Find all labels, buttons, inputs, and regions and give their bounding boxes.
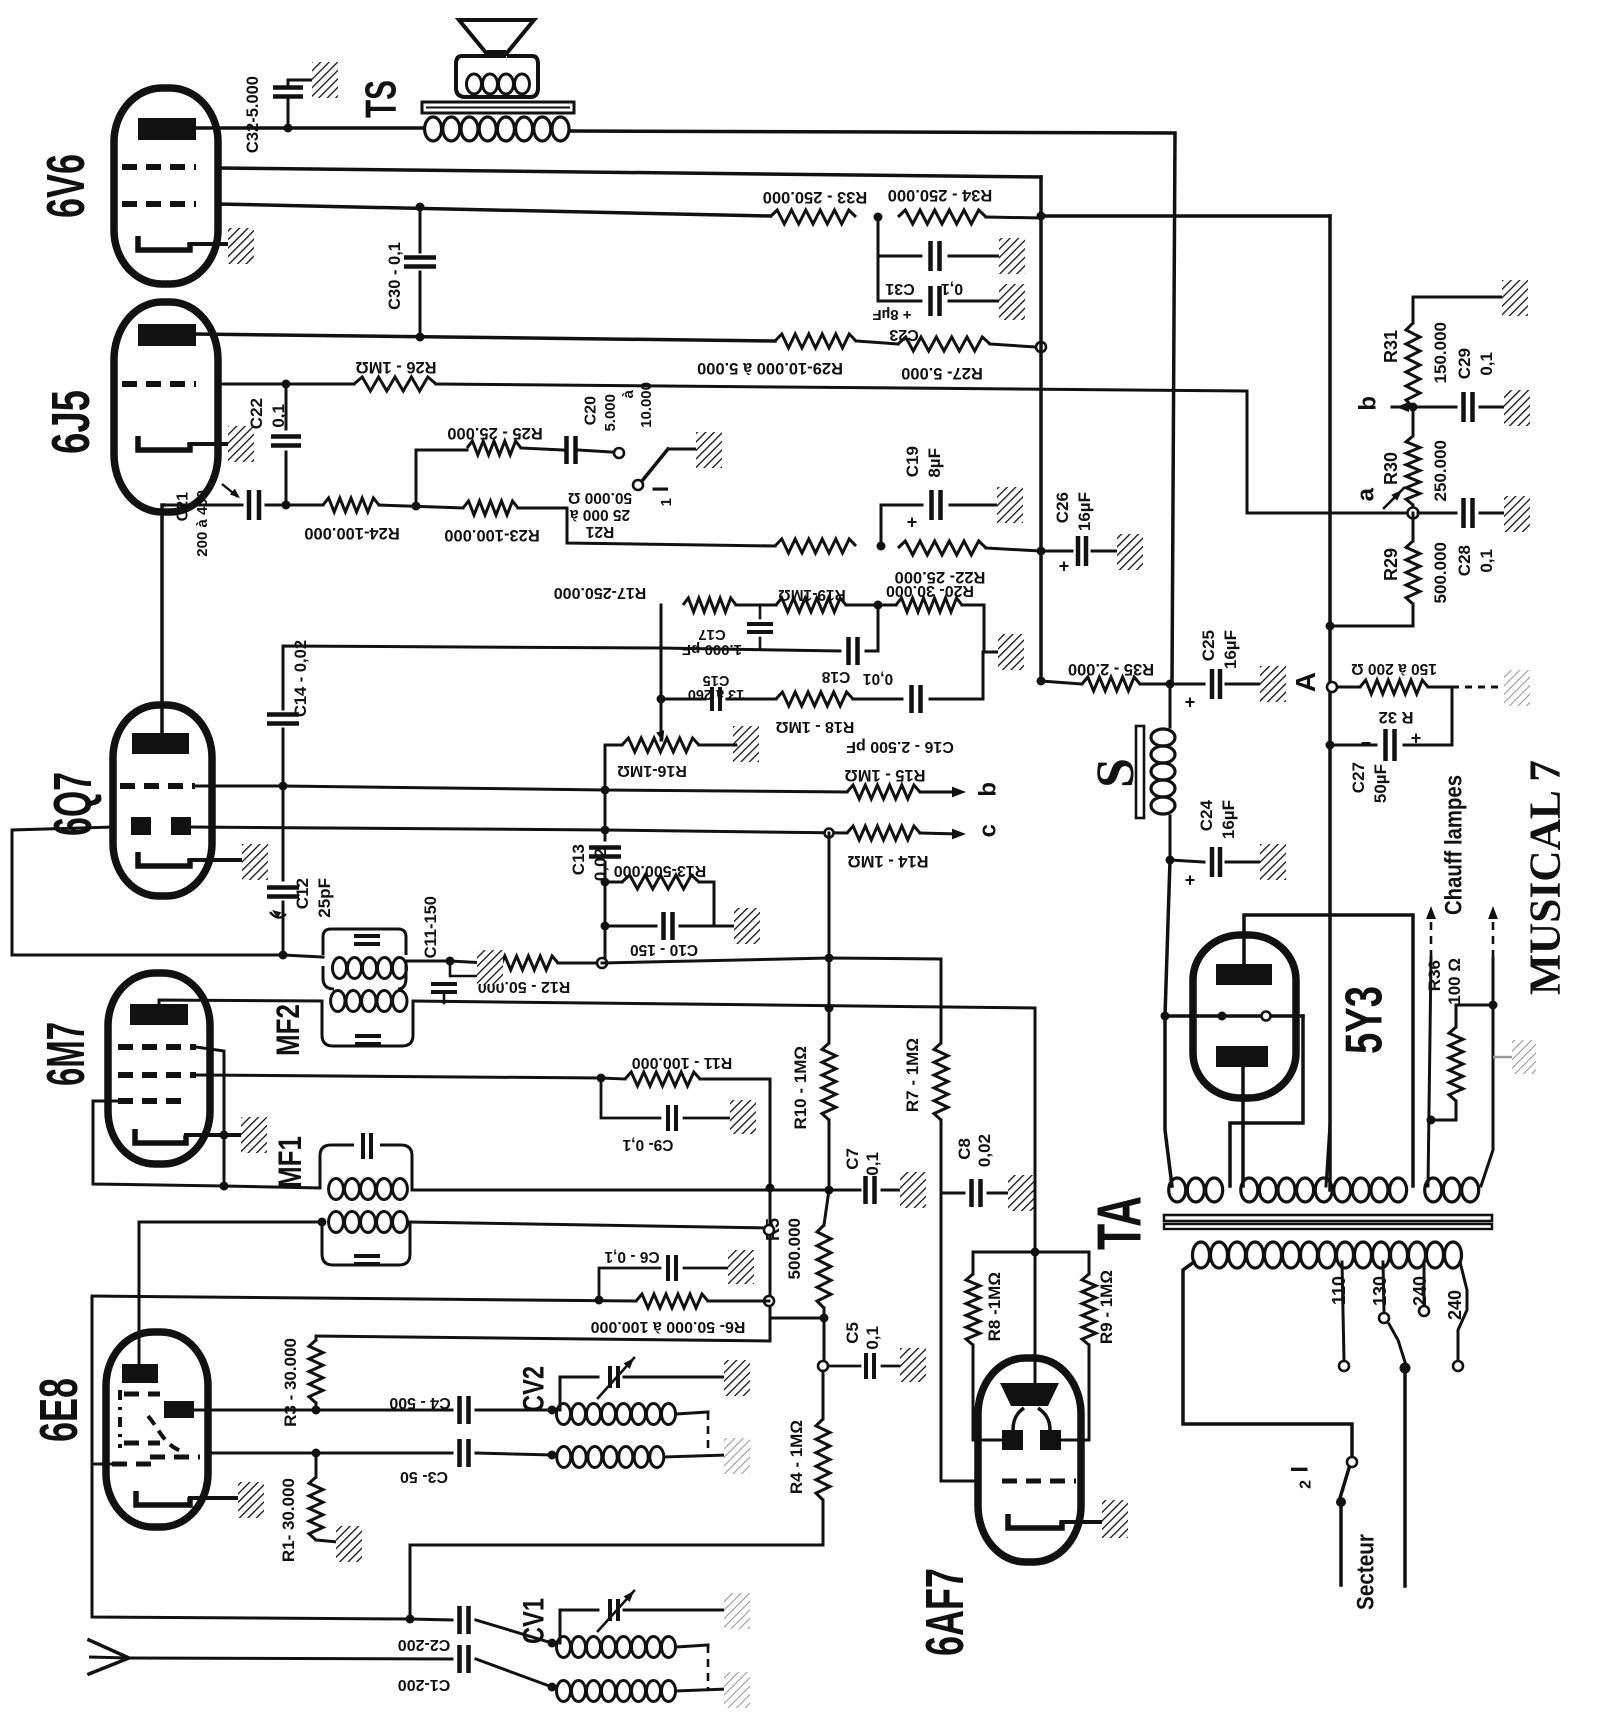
tube 6M7 anode (plate bar) xyxy=(130,1004,188,1025)
transformer TA heater winding 5Y3 xyxy=(1169,1178,1186,1202)
svg-text:R15 - 1MΩ: R15 - 1MΩ xyxy=(844,766,925,784)
svg-text:CV2: CV2 xyxy=(518,1366,551,1412)
wire C2 to CV1 top coil xyxy=(476,1620,552,1643)
wire I1 to ground xyxy=(668,448,698,451)
ground C29 xyxy=(1504,390,1530,426)
wire 6AF7 feed vertical xyxy=(1034,1008,1037,1385)
tube 6J5 cathode xyxy=(138,436,190,450)
tube 6AF7 grid xyxy=(1002,1479,1076,1484)
svg-text:C25: C25 xyxy=(1199,630,1218,661)
capacitor C1 200 xyxy=(457,1645,462,1673)
tube 6J5 grid xyxy=(122,381,196,387)
arrow C21 annotation xyxy=(222,484,238,497)
capacitor C19 8µF electrolytic xyxy=(881,505,922,546)
svg-text:C20: C20 xyxy=(583,396,600,425)
resistor R27 5.000 xyxy=(898,337,990,351)
capacitor C28 0,1 xyxy=(1461,498,1466,528)
svg-text:R17-250.000: R17-250.000 xyxy=(554,584,647,601)
svg-text:R29: R29 xyxy=(1381,548,1401,581)
resistor R24 100.000 xyxy=(323,498,379,512)
svg-text:50µF: 50µF xyxy=(1371,764,1390,803)
svg-text:C8: C8 xyxy=(955,1138,974,1160)
wire 6E8 plate up to osc coil xyxy=(139,1222,320,1364)
tube 6M7 grid 2 xyxy=(118,1072,196,1078)
svg-text:130: 130 xyxy=(1370,1276,1390,1306)
svg-text:C11-150: C11-150 xyxy=(422,896,440,958)
svg-text:C32-5.000: C32-5.000 xyxy=(244,76,262,153)
svg-text:R1- 30.000: R1- 30.000 xyxy=(279,1478,298,1562)
svg-text:500.000: 500.000 xyxy=(785,1218,804,1279)
svg-text:C19: C19 xyxy=(903,446,922,477)
ground C9 xyxy=(730,1100,756,1134)
wire primary left lead down to I2 xyxy=(1183,1262,1352,1456)
node filament left xyxy=(1161,1012,1170,1021)
svg-text:C2-200: C2-200 xyxy=(398,1636,451,1653)
node R4 to C2 line xyxy=(406,1615,415,1624)
wire CV2 bottom coil right to ground xyxy=(664,1455,726,1457)
CV2 oscillator section coil xyxy=(557,1404,571,1425)
ground C5 xyxy=(900,1348,926,1382)
node R6 right circle xyxy=(764,1296,774,1306)
tube 6E8 grid coupling curve xyxy=(148,1416,184,1452)
switch I1 moving contact xyxy=(633,480,643,490)
svg-text:+: + xyxy=(1059,556,1070,576)
svg-text:250.000: 250.000 xyxy=(1431,440,1450,501)
ground 6Q7 cathode xyxy=(242,844,268,880)
tube 6V6 grid 2 xyxy=(122,201,196,207)
svg-text:b: b xyxy=(1354,396,1381,411)
svg-text:16µF: 16µF xyxy=(1219,800,1238,839)
ground C10 xyxy=(714,925,736,928)
resistor R22 25.000 xyxy=(898,541,986,555)
IF primary coil xyxy=(333,958,347,979)
tube 5Y3 anode bar top xyxy=(1216,964,1272,985)
resistor R14 1M xyxy=(847,826,920,840)
wire R19 to R20 corner xyxy=(736,604,776,607)
resistor R31 150.000 vertical xyxy=(1412,297,1415,323)
tube 6M7 grid 3 xyxy=(118,1098,188,1104)
capacitor C7 0,1 xyxy=(829,1189,860,1192)
svg-text:C26: C26 xyxy=(1053,492,1072,523)
tube 6AF7 fluorescent target xyxy=(1000,1383,1059,1406)
tap 130 contact xyxy=(1379,1313,1389,1323)
wire CV1 bottom coil right to ground xyxy=(676,1689,726,1691)
svg-text:C21: C21 xyxy=(175,492,192,521)
svg-text:MUSICAL 7: MUSICAL 7 xyxy=(1521,760,1570,995)
IF transformer primary box (top) xyxy=(323,929,406,955)
node R33/R34 junction xyxy=(874,213,883,222)
wire R35 to S junction xyxy=(1140,683,1170,686)
wire 6E8 grid4 to rail xyxy=(92,1463,112,1466)
tap 240b contact xyxy=(1453,1361,1463,1371)
MF2 secondary coil xyxy=(331,991,345,1012)
wire grid line to R15 xyxy=(283,786,847,792)
tap 240b wire xyxy=(1458,1262,1467,1360)
wire L5 6J5 plate line xyxy=(196,334,775,341)
switch I1 fixed contact xyxy=(614,448,624,458)
wire 6E8 cathode to ground xyxy=(190,1496,242,1500)
svg-text:C28: C28 xyxy=(1455,545,1474,576)
svg-text:R30: R30 xyxy=(1381,452,1401,485)
output transformer TS core bar xyxy=(422,102,574,113)
tube 6E8 envelope xyxy=(106,1332,208,1527)
wire b-line lower from grid corner to a-node xyxy=(1247,512,1408,515)
resistor R6 50.000 a 100.000 xyxy=(636,1294,708,1308)
resistor R8 1M vertical xyxy=(973,1252,1035,1274)
node C7 line R10 junction xyxy=(825,1186,834,1195)
resistor R4 1M vertical xyxy=(822,1371,825,1419)
CV2 trimmer bracket xyxy=(560,1377,598,1410)
wire R22 to bus xyxy=(986,548,1041,551)
ground CV1 trimmer (light) xyxy=(724,1593,750,1629)
svg-text:R35 - 2.000: R35 - 2.000 xyxy=(1068,660,1154,678)
svg-text:R7 - 1MΩ: R7 - 1MΩ xyxy=(903,1038,922,1112)
resistor R1 30.000 vertical xyxy=(309,1477,323,1540)
wire 5Y3 plate top xyxy=(1244,915,1413,1186)
resistor R17 250.000 xyxy=(683,598,736,612)
svg-text:C18: C18 xyxy=(821,668,850,685)
tube 6E8 grid row 3 xyxy=(150,1455,200,1460)
svg-text:R6- 50.000 à 100.000: R6- 50.000 à 100.000 xyxy=(591,1318,746,1335)
transformer TA core xyxy=(1164,1215,1492,1221)
resistor R5 500.000 vertical xyxy=(824,1190,829,1225)
oscillator coil box xyxy=(322,1222,410,1265)
wire b line to C29 xyxy=(1413,406,1456,409)
svg-text:16µF: 16µF xyxy=(1075,492,1094,531)
node C6 junction xyxy=(595,1296,604,1305)
tube 6AF7 cathode xyxy=(1008,1514,1062,1528)
resistor R25 25.000 xyxy=(467,441,521,455)
capacitor C31 0,1 xyxy=(928,241,933,271)
resistor R29 10.000 a 5.000 xyxy=(775,334,856,348)
wire 6E8 osc anode line xyxy=(194,1409,316,1412)
ground R32 xyxy=(1504,670,1530,706)
trimmer C15 13 a 260 xyxy=(710,687,714,711)
tube 6Q7 anode (plate bar) xyxy=(132,733,189,754)
svg-text:R36: R36 xyxy=(1425,960,1444,991)
node c-line vertical junction xyxy=(825,829,834,838)
capacitor C6 0,1 xyxy=(599,1268,660,1300)
svg-text:A: A xyxy=(1290,672,1321,692)
resistor R11 100.000 xyxy=(625,1072,700,1086)
mains selector lever xyxy=(1389,1324,1405,1362)
arrow b xyxy=(1392,406,1411,409)
svg-text:R14 - 1MΩ: R14 - 1MΩ xyxy=(847,852,928,870)
wire R25 to C20 xyxy=(521,448,564,450)
wire L3 6V6 grid line to R33 row xyxy=(218,204,770,216)
wire R6 line xyxy=(770,1317,824,1320)
wire heater 6V left lead up xyxy=(1428,958,1431,1186)
svg-text:R33 - 250.000: R33 - 250.000 xyxy=(763,188,868,206)
svg-text:C24: C24 xyxy=(1197,799,1216,831)
resistor R20 30.000 xyxy=(896,598,962,612)
wire heater 6V right lead up xyxy=(1481,958,1493,1186)
capacitor C11 150 xyxy=(449,961,452,976)
svg-text:R24-100.000: R24-100.000 xyxy=(304,524,399,542)
resistor R9 1M vertical xyxy=(1035,1252,1089,1274)
wire 6Q7 diode line left rail xyxy=(12,827,283,955)
svg-text:150.000: 150.000 xyxy=(1431,322,1450,383)
resistor R21 xyxy=(775,539,856,553)
capacitor C30 0,1 xyxy=(419,207,422,252)
wire C18 row xyxy=(661,648,840,651)
resistor R33 250.000 xyxy=(770,210,856,224)
tube 6AF7 deflector lead left xyxy=(1013,1408,1024,1430)
svg-text:Secteur: Secteur xyxy=(1352,1534,1379,1610)
svg-text:5Y3: 5Y3 xyxy=(1335,986,1393,1054)
svg-text:R29-10.000 à 5.000: R29-10.000 à 5.000 xyxy=(697,359,843,377)
ground R36 (light) xyxy=(1493,1056,1514,1059)
resistor R7 1M vertical xyxy=(934,1043,948,1120)
wire R35 row left xyxy=(1041,681,1082,684)
ground C7 xyxy=(900,1172,926,1208)
resistor R29 500.000 vertical xyxy=(1412,513,1415,541)
wire C2 line xyxy=(410,1619,452,1620)
wire L6 6J5 grid line xyxy=(218,383,354,386)
svg-text:R25 - 25.000: R25 - 25.000 xyxy=(447,424,542,442)
transformer TA heater winding 6V xyxy=(1425,1178,1442,1202)
wire 6M7 grid3 left loop xyxy=(93,1101,320,1188)
node a junction (circle) xyxy=(1408,508,1419,519)
ground I1 xyxy=(696,432,722,468)
tube 6J5 anode (plate bar) xyxy=(138,324,196,346)
wire 5Y3 filament line xyxy=(1165,1014,1303,1018)
svg-text:a: a xyxy=(1352,487,1379,501)
svg-text:C7: C7 xyxy=(843,1148,862,1170)
svg-text:+: + xyxy=(1185,870,1196,890)
tube 5Y3 envelope xyxy=(1193,935,1296,1098)
oscillator capacitor xyxy=(354,1254,380,1258)
wire C3 to CV2 bottom coil xyxy=(476,1453,552,1455)
node A junction xyxy=(1330,686,1360,689)
wire 5Y3 plate bottom to HV winding xyxy=(1241,1067,1245,1186)
node 6Q7 grid junction xyxy=(279,782,288,791)
svg-text:0,1: 0,1 xyxy=(269,404,288,428)
transformer TA center tap wire xyxy=(1326,1123,1330,1186)
ground 6V6 cathode xyxy=(228,228,254,264)
node bracket cathode junction xyxy=(220,1131,229,1140)
node R6 junction xyxy=(820,1314,829,1323)
svg-text:0,01: 0,01 xyxy=(863,670,894,687)
tap 240a wire xyxy=(1423,1262,1426,1305)
ground C8 xyxy=(1008,1175,1034,1211)
capacitor C9 0,1 xyxy=(601,1078,660,1118)
CV1 RF section coil xyxy=(557,1637,571,1658)
tube 6Q7 diode plate left xyxy=(131,817,151,835)
node osc coil left xyxy=(318,1218,327,1227)
node R36 top xyxy=(1489,1001,1498,1010)
wire R24 to junction xyxy=(379,505,463,508)
node C13 top junction xyxy=(601,826,610,835)
tube 6E8 grid bracket (dash-dot) xyxy=(118,1390,122,1448)
svg-text:R27- 5.000: R27- 5.000 xyxy=(901,364,983,382)
svg-text:MF1: MF1 xyxy=(272,1136,308,1188)
svg-text:+: + xyxy=(1185,692,1196,712)
svg-text:S: S xyxy=(1085,758,1145,788)
svg-text:6V6: 6V6 xyxy=(36,154,96,218)
svg-text:110: 110 xyxy=(1329,1276,1349,1305)
svg-text:à: à xyxy=(620,389,637,398)
svg-text:C6 - 0,1: C6 - 0,1 xyxy=(604,1248,660,1265)
svg-text:R20- 30.000: R20- 30.000 xyxy=(886,582,974,599)
svg-text:R18 - 1MΩ: R18 - 1MΩ xyxy=(776,718,855,735)
svg-text:13 à 260: 13 à 260 xyxy=(688,686,744,702)
MF2 secondary capacitor xyxy=(355,1034,381,1038)
ground C11 xyxy=(477,950,503,984)
svg-text:0,1: 0,1 xyxy=(863,1152,882,1176)
svg-text:Chauff lampes: Chauff lampes xyxy=(1440,775,1467,915)
wire 6E8 osc grid line xyxy=(208,1452,316,1455)
svg-text:R16-1MΩ: R16-1MΩ xyxy=(617,762,687,779)
node C5 junction (circle) xyxy=(818,1361,828,1371)
node C32 junction xyxy=(284,124,293,133)
tube 6E8 oscillator anode bar xyxy=(164,1401,194,1418)
svg-text:0,02: 0,02 xyxy=(975,1134,994,1167)
ground CV1 bottom (light) xyxy=(724,1672,750,1708)
CV1 gang link (dashed) xyxy=(707,1645,710,1689)
tube 6J5 envelope xyxy=(114,302,218,512)
svg-text:C22: C22 xyxy=(247,398,266,429)
node R27 bus junction (circle) xyxy=(1036,342,1046,352)
ground CV2 bottom (light) xyxy=(724,1438,750,1474)
tube 6E8 grid row 2 xyxy=(124,1441,160,1446)
ground R16 xyxy=(733,726,759,762)
tap 110 contact xyxy=(1339,1361,1349,1371)
svg-text:C14 - 0,02: C14 - 0,02 xyxy=(292,640,310,717)
wire R27 right to bus junction xyxy=(990,344,1036,347)
svg-text:200 à 400: 200 à 400 xyxy=(194,490,211,557)
svg-text:100 Ω: 100 Ω xyxy=(1445,958,1464,1005)
wire 6J5 cathode to ground xyxy=(190,442,232,446)
IF transformer MF1 box xyxy=(320,1145,412,1190)
svg-text:C4 - 500: C4 - 500 xyxy=(389,1394,450,1411)
tube 6M7 envelope xyxy=(108,973,210,1164)
speaker voice coil box xyxy=(456,56,538,97)
wire 6Q7 grid line xyxy=(196,785,283,788)
ground 6J5 cathode xyxy=(228,426,254,462)
ground CV2 trimmer xyxy=(724,1360,750,1396)
IF transformer secondary box MF2 xyxy=(322,1001,413,1046)
node C24 junction xyxy=(1166,856,1175,865)
ground R20 xyxy=(998,634,1024,670)
capacitor C17 1000pF xyxy=(759,605,762,618)
node avc junction xyxy=(825,954,834,963)
capacitor C14 0,02 xyxy=(282,729,285,786)
tube 6Q7 diode plate right xyxy=(171,817,191,835)
node b junction xyxy=(1409,403,1418,412)
tap 240a contact xyxy=(1419,1306,1429,1316)
node C30 bottom on 6J5 plate line xyxy=(416,333,425,342)
svg-text:R10 - 1MΩ: R10 - 1MΩ xyxy=(791,1046,810,1130)
node C22/C21 junction xyxy=(282,501,291,510)
node R24/R23/R25 junction xyxy=(412,502,421,511)
CV1 antenna coil xyxy=(557,1681,571,1702)
wire C11 to ground xyxy=(452,975,478,978)
CV2 trimmer capacitor xyxy=(608,1366,612,1388)
wire upper b-line from bus to HT vertical xyxy=(1041,214,1330,218)
resistor R23 100.000 xyxy=(463,501,518,515)
ground C31 xyxy=(999,238,1025,274)
svg-text:6E8: 6E8 xyxy=(29,1378,89,1442)
svg-text:25 000 à: 25 000 à xyxy=(569,506,630,523)
wire vertical HT x1330 xyxy=(1328,216,1332,1190)
wire osc coil right to R5 bottom xyxy=(410,1222,769,1228)
svg-text:5.000: 5.000 xyxy=(602,394,619,432)
svg-text:R11 - 100.000: R11 - 100.000 xyxy=(632,1054,733,1071)
node R16 tap on b line xyxy=(601,786,610,795)
potentiometer R16 1M xyxy=(622,738,699,752)
ground C6 xyxy=(728,1250,754,1284)
resistor R18 1M xyxy=(776,692,853,706)
ground C19 xyxy=(997,487,1023,523)
capacitor C22 0,1 xyxy=(285,384,288,429)
wire 6AF7 cathode to ground xyxy=(1062,1520,1106,1524)
tube 6AF7 deflector left xyxy=(1002,1430,1023,1450)
tube 5Y3 anode bar bottom xyxy=(1216,1046,1268,1067)
svg-text:240: 240 xyxy=(1445,1290,1465,1320)
capacitor C16 2500pF xyxy=(909,685,914,713)
MF1 capacitor xyxy=(361,1133,365,1159)
output transformer TS primary coil xyxy=(425,117,442,141)
node R36 bottom xyxy=(1427,1116,1436,1125)
wire CV1 coil right to gang link xyxy=(676,1645,708,1647)
wire C4 to CV2 xyxy=(476,1409,552,1412)
wire C1 to CV1 bottom coil xyxy=(476,1659,552,1687)
node filament pin1 xyxy=(1218,1012,1227,1021)
trimmer arrow C12 xyxy=(270,912,286,918)
capacitor C10 150 xyxy=(661,912,666,940)
capacitor C2 200 xyxy=(457,1606,462,1634)
switch I2 fixed contact xyxy=(1347,1457,1357,1467)
ground C28 xyxy=(1504,496,1530,532)
ground C32 xyxy=(312,62,338,98)
wire C13 line down to R12 line xyxy=(604,926,607,961)
svg-text:150 à 200 Ω: 150 à 200 Ω xyxy=(1351,660,1437,677)
node C9 junction xyxy=(597,1074,606,1083)
resistor R30 250.000 vertical xyxy=(1406,436,1420,505)
wire R18 to C16 xyxy=(853,698,902,701)
capacitor C4 500 xyxy=(457,1396,462,1424)
tube 6Q7 envelope xyxy=(113,705,212,896)
svg-text:1: 1 xyxy=(658,498,675,506)
svg-text:500.000: 500.000 xyxy=(1431,542,1450,603)
resistor R26 1M xyxy=(354,377,436,391)
wire left rail R6 to C2 line xyxy=(92,1296,410,1619)
capacitor C29 0,1 xyxy=(1461,392,1466,422)
tube 6E8 anode (plate bar) xyxy=(122,1364,158,1383)
svg-text:C15: C15 xyxy=(703,672,730,688)
svg-text:–: – xyxy=(1361,734,1371,754)
capacitor C13 0,02 xyxy=(604,790,607,840)
wire 6AF7 grid line xyxy=(941,1193,978,1481)
svg-text:R9 - 1MΩ: R9 - 1MΩ xyxy=(1097,1270,1116,1344)
svg-text:TA: TA xyxy=(1086,1196,1155,1250)
svg-text:8µF: 8µF xyxy=(925,448,944,478)
wire R6 row xyxy=(708,1300,769,1303)
wire R34 right to vertical bus xyxy=(986,217,1041,218)
wire c-line vertical down xyxy=(828,833,831,958)
transformer TA primary winding xyxy=(1193,1242,1210,1268)
ground 6AF7 cathode xyxy=(1102,1500,1128,1538)
svg-text:6AF7: 6AF7 xyxy=(915,1568,975,1656)
node C19 junction xyxy=(877,542,886,551)
svg-text:c: c xyxy=(974,824,1001,837)
wire C31 to ground xyxy=(949,255,1001,258)
svg-text:2: 2 xyxy=(1298,1480,1315,1489)
wire R12 to circle xyxy=(558,962,597,965)
wire grid line right to corner xyxy=(436,384,1247,513)
node R22 bus junction xyxy=(1037,547,1046,556)
